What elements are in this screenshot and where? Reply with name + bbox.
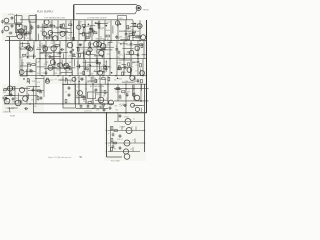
wire ch s4 bbox=[132, 147, 134, 152]
wire v8a bbox=[84, 20, 86, 40]
junction nd0 bbox=[137, 61, 139, 63]
wire ndw5 bbox=[122, 64, 127, 66]
wire bus left drop bbox=[73, 5, 75, 20]
wire v19b bbox=[143, 41, 145, 59]
resistor R46 bbox=[102, 78, 105, 80]
svg-text:C12: C12 bbox=[98, 79, 102, 81]
wire mbw5 bbox=[39, 52, 52, 54]
wire paw2 bbox=[141, 84, 143, 90]
transistor Q_ch1 bbox=[126, 128, 132, 134]
junction bbox=[92, 103, 94, 105]
svg-text:R8: R8 bbox=[127, 92, 129, 94]
wire naw1 bbox=[25, 70, 35, 72]
wire maw2 bbox=[22, 42, 24, 47]
svg-text:10: 10 bbox=[78, 50, 80, 52]
wire lbw4 bbox=[8, 107, 14, 109]
wire v3a bbox=[51, 20, 53, 40]
resistor R_tl2 bbox=[22, 33, 25, 35]
wire maw1 bbox=[27, 55, 36, 57]
capacitor C_rm1 bbox=[80, 104, 83, 108]
svg-text:33: 33 bbox=[85, 89, 87, 91]
wire v3b bbox=[39, 41, 41, 59]
capacitor C_lb3 bbox=[40, 96, 43, 100]
svg-text:33: 33 bbox=[103, 64, 105, 66]
wire ch s1 bbox=[121, 126, 123, 130]
wire tbw3 bbox=[89, 31, 96, 33]
transistor Q_lb1 bbox=[8, 86, 13, 91]
wire v5b bbox=[53, 41, 55, 59]
junction bbox=[78, 103, 80, 105]
wire v12b bbox=[96, 41, 98, 59]
capacitor C25 bbox=[45, 71, 48, 75]
wire ncw4 bbox=[105, 60, 107, 72]
svg-text:47: 47 bbox=[65, 92, 67, 94]
resistor R35 bbox=[85, 68, 88, 70]
resistor R_sb1 bbox=[65, 100, 67, 103]
svg-text:+01 (7301)*: +01 (7301)* bbox=[119, 104, 128, 106]
capacitor C_sb1 bbox=[68, 86, 71, 90]
resistor R_ch2 bbox=[113, 142, 116, 144]
transistor Q_ch4 bbox=[124, 154, 130, 160]
wire drop G bbox=[33, 104, 35, 113]
wire v3d bbox=[78, 76, 80, 104]
capacitor C35 bbox=[11, 98, 15, 101]
wire mdw4 bbox=[122, 47, 133, 49]
wire v12a bbox=[110, 20, 112, 40]
wire mbw1 bbox=[63, 53, 65, 59]
svg-text:b: b bbox=[108, 145, 109, 147]
capacitor C2 bbox=[28, 32, 32, 35]
transistor Q20 bbox=[94, 42, 99, 47]
svg-text:Cx 7x: Cx 7x bbox=[116, 92, 121, 94]
resistor R_ch1 bbox=[114, 130, 117, 132]
junction rmj2 bbox=[107, 103, 109, 105]
junction bbox=[69, 75, 71, 77]
capacitor C9 bbox=[24, 46, 28, 49]
resistor R15 bbox=[86, 37, 89, 39]
wire maw3 bbox=[32, 54, 34, 59]
resistor R33 bbox=[96, 60, 98, 63]
resistor R_ch5 bbox=[111, 148, 113, 151]
wire v7d bbox=[107, 76, 109, 104]
wire ndw4 bbox=[117, 67, 129, 69]
capacitor C_in4 bbox=[1, 30, 4, 34]
capacitor C_rc2 bbox=[119, 114, 122, 118]
junction bbox=[98, 40, 100, 42]
svg-text:JCRGU o: JCRGU o bbox=[3, 112, 11, 114]
svg-text:270: 270 bbox=[20, 96, 23, 98]
resistor R14 bbox=[90, 28, 93, 30]
capacitor C_rm8 bbox=[103, 108, 106, 112]
capacitor C4 bbox=[37, 25, 40, 29]
capacitor C_in2 bbox=[11, 24, 14, 28]
capacitor C_rm6 bbox=[95, 88, 98, 92]
resistor R12 bbox=[83, 33, 85, 36]
wire ncw6 bbox=[83, 61, 96, 63]
svg-text:50: 50 bbox=[37, 73, 39, 75]
svg-text:12K: 12K bbox=[116, 57, 120, 59]
transistor Q9 bbox=[137, 24, 142, 29]
resistor R2 bbox=[44, 26, 47, 28]
wire mcw5 bbox=[76, 52, 86, 54]
capacitor C5 bbox=[97, 22, 101, 25]
wire v3e bbox=[140, 84, 142, 100]
svg-text:R21: R21 bbox=[86, 71, 89, 73]
wire v14a bbox=[125, 20, 127, 40]
svg-text:C15: C15 bbox=[33, 106, 37, 108]
wire v13c bbox=[109, 59, 111, 76]
wire v10b bbox=[83, 41, 85, 59]
resistor R25 bbox=[79, 54, 81, 57]
transistor Q36 bbox=[134, 95, 139, 100]
wire connector lead bbox=[135, 10, 137, 14]
wire taw9 bbox=[64, 32, 72, 34]
wire left rail bbox=[9, 37, 11, 96]
resistor R17 bbox=[132, 31, 135, 33]
wire nbw0 bbox=[71, 70, 73, 76]
svg-text:C5: C5 bbox=[130, 149, 132, 151]
junction tb9 bbox=[84, 27, 86, 29]
wire v1d bbox=[62, 76, 64, 104]
wire rail E bbox=[114, 88, 149, 90]
junction nc2 bbox=[90, 65, 92, 67]
wire ocw1 bbox=[90, 77, 92, 83]
wire v6b bbox=[59, 41, 61, 59]
wire rail A bbox=[5, 40, 147, 42]
resistor R48 bbox=[141, 80, 143, 83]
junction chd1 bbox=[106, 151, 107, 152]
transistor Q22 bbox=[88, 48, 92, 52]
svg-text:x 4701 xx: x 4701 xx bbox=[5, 107, 13, 109]
resistor R39 bbox=[122, 72, 124, 75]
resistor R52 bbox=[37, 90, 40, 92]
svg-text:33: 33 bbox=[44, 38, 46, 40]
transistor Q32 bbox=[127, 68, 132, 73]
wire v0a bbox=[29, 20, 31, 40]
wire pbw1 bbox=[133, 104, 144, 106]
resistor R13 bbox=[94, 32, 97, 34]
svg-text:2.2M: 2.2M bbox=[78, 73, 83, 75]
wire rail B2 bbox=[76, 46, 114, 48]
wire mbw3 bbox=[45, 54, 47, 59]
wire tcw7 bbox=[135, 36, 142, 38]
wire v18b bbox=[137, 41, 139, 59]
resistor R11 bbox=[106, 35, 109, 37]
wire v11c bbox=[96, 59, 98, 76]
svg-text:10: 10 bbox=[103, 72, 105, 74]
capacitor C12 bbox=[48, 55, 52, 58]
transistor Q17 bbox=[87, 51, 91, 55]
transistor Q6 bbox=[44, 20, 49, 25]
wire chain h130 bbox=[108, 130, 145, 132]
wire ch s3 bbox=[134, 139, 136, 144]
wire lb h86 bbox=[28, 85, 40, 87]
box osc bbox=[20, 44, 30, 50]
resistor R28 bbox=[140, 44, 143, 46]
resistor R47 bbox=[95, 79, 97, 82]
wire rail C bbox=[20, 75, 147, 77]
svg-text:R44: R44 bbox=[76, 95, 79, 97]
resistor R5 bbox=[69, 24, 72, 26]
wire v13b bbox=[103, 41, 105, 59]
svg-text:50: 50 bbox=[116, 46, 118, 48]
wire v5a bbox=[65, 20, 67, 40]
junction ma3 bbox=[27, 56, 29, 58]
wire lbw3 bbox=[27, 94, 29, 99]
wire v0e bbox=[117, 84, 119, 100]
wire rm v3 bbox=[92, 99, 94, 104]
svg-text:Figure 5-12 (A) radio tape rec: Figure 5-12 (A) radio tape rec bbox=[48, 156, 72, 159]
wire rm v101 bbox=[100, 84, 102, 97]
wire rc v118 bbox=[117, 113, 119, 121]
wire ndw1 bbox=[140, 69, 142, 76]
wire v126 ext bbox=[125, 101, 127, 113]
wire rail main bottom bbox=[33, 112, 147, 114]
wire nbw7 bbox=[65, 67, 75, 69]
transistor Q38 bbox=[131, 103, 135, 107]
junction lbj bbox=[29, 103, 31, 105]
svg-text:470: 470 bbox=[48, 22, 51, 24]
capacitor C16 bbox=[78, 43, 82, 46]
junction ob2 bbox=[65, 78, 67, 80]
wire pbw2 bbox=[136, 104, 142, 106]
wire nbw3 bbox=[48, 67, 57, 69]
wire v4d bbox=[85, 76, 87, 104]
wire ocw0 bbox=[104, 78, 106, 84]
wire v18c bbox=[142, 59, 144, 76]
svg-text:C12: C12 bbox=[116, 38, 120, 40]
resistor R37 bbox=[83, 71, 85, 74]
capacitor C29 bbox=[80, 78, 84, 81]
wire mdw3 bbox=[122, 43, 127, 45]
wire ncw2 bbox=[99, 62, 101, 72]
wire lb h90 bbox=[28, 89, 44, 91]
capacitor C23 bbox=[68, 68, 72, 71]
box T2 bbox=[16, 25, 23, 33]
transistor Q_in2 bbox=[4, 26, 9, 31]
wire v10a bbox=[98, 20, 100, 40]
wire v5d bbox=[92, 76, 94, 104]
node eq switch box bbox=[118, 16, 127, 20]
svg-text:C9: C9 bbox=[47, 34, 49, 36]
capacitor C_in3 bbox=[1, 20, 4, 24]
junction rcj2 bbox=[140, 100, 142, 102]
capacitor C6 bbox=[91, 30, 95, 33]
wire tbw7 bbox=[88, 31, 90, 38]
resistor R43 bbox=[27, 78, 29, 81]
capacitor C20 bbox=[130, 42, 133, 46]
junction bbox=[84, 40, 86, 42]
junction bbox=[92, 83, 94, 85]
junction chd2 bbox=[144, 130, 145, 131]
wire taw0 bbox=[45, 36, 54, 38]
svg-text:100K: 100K bbox=[132, 78, 137, 80]
transistor Q7 bbox=[60, 31, 65, 36]
capacitor C21 bbox=[29, 69, 33, 72]
wire chain h143 bbox=[108, 142, 145, 144]
svg-text:68: 68 bbox=[103, 96, 105, 98]
wire v7a bbox=[78, 20, 80, 40]
junction rmj3 bbox=[92, 108, 93, 109]
resistor R42 bbox=[128, 63, 130, 66]
wire v9b bbox=[77, 41, 79, 59]
svg-text:LAST: LAST bbox=[119, 17, 123, 20]
capacitor C27 bbox=[77, 65, 81, 68]
transistor Q29 bbox=[50, 60, 55, 65]
transistor Q39 bbox=[23, 96, 28, 101]
transistor Q35 bbox=[130, 76, 135, 81]
junction oc4 bbox=[78, 81, 80, 83]
wire mbw6 bbox=[53, 51, 55, 59]
svg-text:C12: C12 bbox=[104, 62, 107, 64]
wire ocw2 bbox=[87, 80, 97, 82]
transistor Q13 bbox=[26, 46, 31, 51]
wire rm v1 bbox=[78, 84, 80, 104]
junction oa1 bbox=[23, 78, 25, 80]
wire mdw0 bbox=[141, 54, 146, 56]
svg-text:R31: R31 bbox=[3, 92, 6, 94]
wire oaw0 bbox=[35, 78, 44, 80]
wire oaw1 bbox=[29, 79, 31, 84]
wire mcw3 bbox=[85, 54, 96, 56]
capacitor C_ch4 bbox=[119, 146, 122, 150]
svg-text:47K C2: 47K C2 bbox=[117, 139, 123, 141]
wire rail B4 bbox=[40, 52, 68, 54]
resistor R38 bbox=[118, 66, 120, 69]
resistor R9 bbox=[98, 25, 100, 28]
wire mbw4 bbox=[50, 56, 61, 58]
wire taw3 bbox=[61, 31, 69, 33]
transistor Q28 bbox=[58, 63, 63, 68]
wire nbw6 bbox=[62, 67, 70, 69]
svg-text:C7: C7 bbox=[69, 35, 71, 37]
wire tcw2 bbox=[117, 22, 119, 26]
transistor Q_rm2 bbox=[98, 97, 104, 103]
wire tbw6 bbox=[89, 26, 91, 38]
transistor Q30 bbox=[98, 70, 103, 75]
wire v0d bbox=[35, 76, 37, 104]
svg-text:xx 220 xx: xx 220 xx bbox=[84, 111, 92, 113]
junction bbox=[71, 58, 73, 60]
wire v2d bbox=[74, 76, 76, 104]
capacitor C_rm4 bbox=[102, 103, 106, 106]
transistor Q24 bbox=[135, 46, 140, 51]
transistor Q2 bbox=[17, 34, 22, 39]
transistor Q18 bbox=[100, 44, 105, 49]
capacitor C17 bbox=[115, 47, 118, 51]
svg-text:R21: R21 bbox=[21, 62, 24, 64]
capacitor C_rm3 bbox=[94, 104, 97, 108]
svg-text:C7: C7 bbox=[138, 83, 141, 85]
resistor R_rm4 bbox=[88, 102, 91, 104]
wire v16a bbox=[139, 20, 141, 40]
transistor Q37 bbox=[135, 107, 139, 111]
wire taw1 bbox=[44, 36, 53, 38]
wire mcw6 bbox=[94, 55, 103, 57]
svg-text:005: 005 bbox=[54, 73, 57, 75]
wire nbw5 bbox=[37, 66, 46, 68]
junction nb11 bbox=[69, 66, 71, 68]
svg-text:12K: 12K bbox=[46, 54, 50, 56]
junction bbox=[125, 40, 127, 42]
wire v44d bbox=[43, 76, 45, 97]
transistor Q_lb4 bbox=[15, 100, 21, 106]
wire tlw1 bbox=[21, 28, 23, 36]
wire v16c bbox=[130, 59, 132, 76]
junction bbox=[39, 58, 41, 60]
wire tlw0 bbox=[23, 33, 25, 41]
transistor Q26 bbox=[48, 65, 53, 70]
wire taw2 bbox=[60, 28, 71, 30]
wire v4b bbox=[45, 41, 47, 59]
wire input v1 bbox=[16, 14, 18, 37]
transistor Q34 bbox=[72, 77, 76, 81]
wire rm h108 bbox=[76, 107, 108, 109]
box bias bbox=[88, 92, 96, 99]
junction chj2 bbox=[106, 142, 108, 144]
junction chd3 bbox=[144, 142, 145, 143]
junction bbox=[110, 40, 112, 42]
resistor R7 bbox=[63, 24, 65, 27]
wire v6d bbox=[99, 76, 101, 104]
svg-text:270: 270 bbox=[137, 79, 140, 81]
svg-text:PLAY SUPPLY: PLAY SUPPLY bbox=[37, 10, 54, 13]
capacitor C33 bbox=[24, 107, 28, 110]
wire tbw5 bbox=[82, 27, 84, 33]
wire chain bottom bbox=[107, 156, 123, 158]
svg-text:3.3K: 3.3K bbox=[69, 62, 74, 64]
svg-text:C15: C15 bbox=[68, 22, 71, 24]
svg-text:220: 220 bbox=[130, 63, 133, 65]
resistor R_lb1b bbox=[3, 97, 6, 99]
capacitor C36 bbox=[4, 97, 8, 100]
wire lbw2 bbox=[6, 95, 15, 97]
wire tbw0 bbox=[94, 22, 108, 24]
resistor R27 bbox=[89, 43, 91, 46]
wire lbw0 bbox=[18, 93, 20, 103]
wire obw1 bbox=[67, 79, 69, 84]
junction bbox=[106, 112, 108, 114]
wire v15b bbox=[116, 41, 118, 59]
junction bbox=[117, 88, 119, 90]
wire naw0 bbox=[27, 62, 31, 64]
junction tc11 bbox=[120, 23, 122, 25]
wire v15c bbox=[123, 59, 125, 76]
wire v7c bbox=[71, 59, 73, 76]
transistor Q15 bbox=[51, 46, 56, 51]
wire lc v20 bbox=[19, 49, 21, 66]
junction tb3 bbox=[95, 22, 97, 24]
junction bbox=[123, 58, 125, 60]
wire nbw2 bbox=[74, 59, 76, 66]
junction rmj1 bbox=[85, 83, 87, 85]
junction ta8 bbox=[49, 35, 51, 37]
svg-text:PHONO: PHONO bbox=[143, 10, 150, 12]
capacitor C18 bbox=[118, 51, 121, 55]
resistor R45 bbox=[108, 77, 110, 80]
wire ndw0 bbox=[132, 61, 140, 63]
capacitor C10 bbox=[60, 48, 64, 51]
wire mbw2 bbox=[36, 49, 41, 51]
box shield bbox=[63, 85, 76, 109]
wire v4c bbox=[53, 59, 55, 76]
wire taw7 bbox=[50, 31, 63, 33]
transistor Q21 bbox=[97, 42, 102, 47]
resistor R34 bbox=[97, 62, 100, 64]
wire rc h120 bbox=[114, 121, 145, 123]
junction bbox=[109, 58, 111, 60]
wire v2e bbox=[133, 84, 135, 100]
